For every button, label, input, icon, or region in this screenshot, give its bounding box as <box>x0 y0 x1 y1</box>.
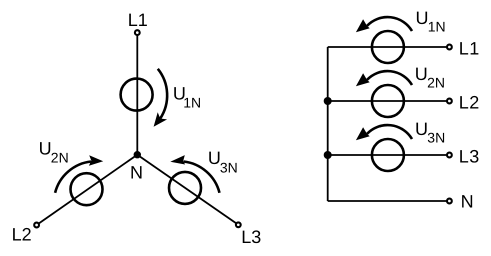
svg-text:1N: 1N <box>183 94 201 110</box>
svg-text:2N: 2N <box>427 75 445 91</box>
svg-text:U: U <box>415 119 428 139</box>
svg-text:U: U <box>39 138 52 158</box>
arrow U3N (curved, counter-clockwise, above-right of source) <box>184 162 220 193</box>
voltage source U2N circle (right) <box>372 85 404 117</box>
svg-text:L3: L3 <box>241 227 261 247</box>
wire row L3 <box>328 154 450 156</box>
wire L1 to node N (vertical) <box>136 33 138 155</box>
svg-text:3N: 3N <box>427 130 445 146</box>
svg-text:L2: L2 <box>459 92 480 112</box>
voltage source U1N circle <box>121 79 153 111</box>
wire row L2 <box>328 100 450 102</box>
voltage source U3N circle <box>169 172 201 204</box>
junction dot bus row L2 <box>324 97 332 105</box>
svg-text:L1: L1 <box>459 38 480 58</box>
svg-text:U: U <box>415 64 428 84</box>
terminal L3 <box>236 222 241 227</box>
svg-text:1N: 1N <box>428 19 446 35</box>
svg-text:L2: L2 <box>12 224 32 244</box>
node N junction dot <box>134 151 141 158</box>
svg-text:L3: L3 <box>459 146 480 166</box>
terminal L3 (right) <box>447 153 452 158</box>
wire node N to L3 (diagonal) <box>137 155 238 225</box>
svg-text:L1: L1 <box>128 10 148 30</box>
arrow U1N (curved, clockwise, right of source) <box>158 69 167 119</box>
terminal L1 (right) <box>447 45 452 50</box>
wire row L1 <box>328 46 450 48</box>
arrow U2N (curved, clockwise, above-left of source) <box>55 162 91 193</box>
arrow U3N (curved, counter-clockwise, above source) <box>367 125 412 139</box>
svg-text:U: U <box>416 8 429 28</box>
terminal L2 (right) <box>447 99 452 104</box>
junction dot bus row L3 <box>324 151 332 159</box>
arrow U1N (curved, counter-clockwise, above source) <box>367 17 412 31</box>
arrow U2N (curved, counter-clockwise, above source) <box>367 71 412 85</box>
svg-text:N: N <box>461 191 474 211</box>
wire row N <box>328 200 450 202</box>
terminal L2 <box>34 223 39 228</box>
terminal N (right) <box>447 199 452 204</box>
voltage source U2N circle <box>71 173 103 205</box>
voltage source U3N circle (right) <box>372 139 404 171</box>
svg-text:2N: 2N <box>51 149 69 165</box>
bus wire (vertical) <box>327 47 329 201</box>
svg-text:N: N <box>130 163 143 183</box>
svg-text:3N: 3N <box>220 159 238 175</box>
terminal L1 <box>135 30 140 35</box>
wire node N to L2 (diagonal) <box>37 155 138 225</box>
voltage source U1N circle (right) <box>372 31 404 63</box>
